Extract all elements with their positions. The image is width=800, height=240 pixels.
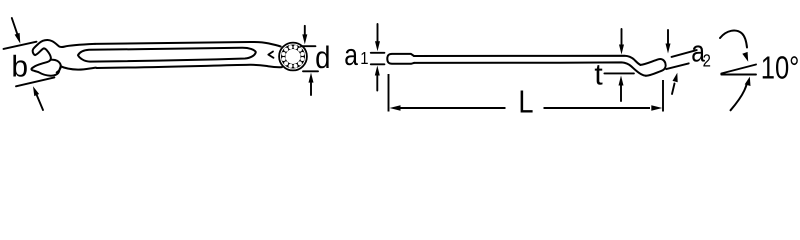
- svg-text:d: d: [315, 40, 330, 75]
- dimension L: line right segment with arrowhead: [544, 107, 651, 109]
- dimension L: line left segment with arrowhead: [400, 107, 506, 109]
- dimension b: lower arrowhead: [33, 86, 39, 96]
- dimension a2: upper slanted tick: [672, 50, 697, 57]
- dimension d: lower tick: [303, 70, 318, 72]
- wrench top view: lower jaw lobe right edge: [52, 60, 61, 73]
- wrench top view: crease before ring: [268, 52, 273, 58]
- dimension a1: lower arrowhead: [375, 66, 380, 76]
- dimension t: lower arrowhead: [619, 76, 624, 86]
- dimension b: lower tick line: [16, 77, 54, 86]
- angle 10 deg: upper curved arrowhead: [742, 52, 748, 62]
- dimension a1: lower arrow shaft: [376, 74, 378, 91]
- dimension t: tick: [604, 72, 634, 74]
- svg-text:t: t: [594, 59, 603, 92]
- svg-text:L: L: [518, 83, 533, 119]
- angle 10 deg: slanted leg: [721, 65, 756, 74]
- dimension a2: lower arrowhead: [673, 73, 678, 82]
- dimension d: lower arrowhead: [309, 73, 314, 83]
- dimension L: right arrowhead: [651, 105, 662, 110]
- svg-text:a: a: [344, 39, 358, 72]
- dimension d: upper arrow shaft: [304, 26, 306, 36]
- wrench top view: shaft bottom edge: [97, 65, 283, 68]
- svg-text:b: b: [11, 51, 28, 84]
- angle 10 deg: lower curved arrow: [731, 83, 748, 110]
- dimension t: arrow above pointing at shaft: [621, 29, 623, 46]
- dimension b: upper arrowhead: [15, 33, 21, 44]
- dimension L: left arrowhead: [390, 105, 401, 110]
- angle 10 deg: lower curved arrowhead: [745, 77, 751, 86]
- dimension a2: upper arrowhead: [666, 44, 671, 54]
- wrench top view: neck bottom edge: [61, 66, 96, 69]
- wrench top view: shaft top edge: [95, 42, 281, 47]
- dimension d: upper arrowhead: [302, 34, 307, 44]
- angle 10 deg: upper curved arrow: [720, 31, 747, 48]
- ring bore: 12 white notches: [282, 45, 305, 68]
- dimension b: lower arrow shaft: [37, 95, 43, 110]
- dimension a2: lower arrow: [672, 84, 675, 95]
- svg-text:10°: 10°: [761, 49, 800, 85]
- wrench top view: shaft milled oval panel: [78, 48, 256, 62]
- svg-text:2: 2: [703, 51, 711, 71]
- dimension a2: upper arrow: [667, 30, 669, 45]
- wrench side view: shaft top edge with bend: [414, 56, 641, 65]
- dimension d: upper tick: [301, 45, 315, 47]
- wrench top view: ring outer circle: [279, 43, 307, 71]
- wrench top view: open-end head outline: [31, 40, 95, 76]
- dimension a1: upper tick: [371, 52, 385, 54]
- svg-text:1: 1: [360, 48, 368, 68]
- dimension b: upper tick line: [4, 42, 37, 49]
- dimension L: left extension line: [388, 74, 390, 112]
- wrench side view: head and shaft outline: [387, 54, 665, 76]
- wrench top view: ring 12-point bore: [282, 45, 305, 68]
- dimension d: lower arrow shaft: [310, 83, 312, 95]
- dimension b: upper arrow shaft: [12, 18, 17, 34]
- angle 10 deg: horizontal leg: [721, 74, 756, 76]
- dimension a1: upper arrow shaft: [377, 24, 379, 43]
- dimension t: arrow below pointing up at tick: [620, 84, 622, 101]
- dimension a1: upper arrowhead: [375, 41, 380, 51]
- wrench side view: shaft bottom edge with bend: [414, 62, 646, 75]
- wrench side view: angled ring end: [641, 59, 666, 76]
- dimension a1: lower tick: [371, 63, 385, 65]
- dimension a2: lower slanted tick: [666, 63, 689, 69]
- wrench side view: open-end head block: [387, 54, 414, 64]
- dimension L: right extension line: [662, 80, 664, 112]
- dimension t: upper arrowhead: [619, 45, 624, 55]
